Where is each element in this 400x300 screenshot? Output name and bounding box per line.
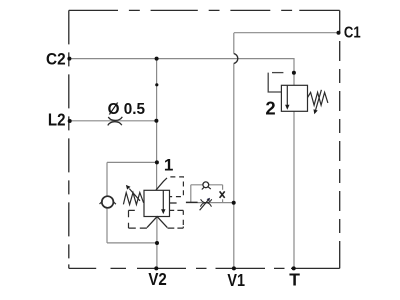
svg-text:V2: V2 [148,269,167,289]
svg-text:2: 2 [265,98,275,119]
svg-text:C2: C2 [46,49,66,68]
svg-text:1: 1 [164,156,173,175]
svg-text:Ø 0.5: Ø 0.5 [108,101,146,118]
svg-text:T: T [289,270,300,290]
svg-text:C1: C1 [344,25,361,42]
svg-text:L2: L2 [48,110,66,130]
svg-text:V1: V1 [227,270,245,290]
